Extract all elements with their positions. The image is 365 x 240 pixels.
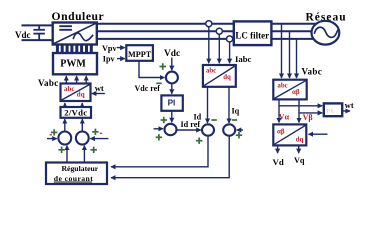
svg-text:Iq: Iq — [232, 106, 240, 115]
summer S2 Idref — [165, 124, 177, 135]
wire Vd output — [277, 145, 279, 153]
inverter U1 AC sine symbol — [73, 33, 93, 41]
wire current tap drop C — [229, 42, 231, 63]
current sensor CT1 — [206, 21, 212, 27]
svg-text:Vβ: Vβ — [303, 113, 313, 122]
sign plus regA — [58, 147, 64, 153]
svg-text:Vdc ref: Vdc ref — [135, 84, 161, 93]
sign plus SA left — [51, 129, 57, 135]
transform alphabeta-dq box — [273, 124, 306, 145]
wire phase A — [97, 23, 316, 25]
gain 2Vdc box — [61, 107, 92, 118]
svg-text:Vd: Vd — [273, 157, 284, 167]
wire mod to PWM 3 — [85, 76, 87, 84]
sign red dash SA — [50, 134, 52, 136]
current sensor CT3 — [227, 36, 233, 42]
wire Iq drop — [228, 87, 230, 123]
svg-text:Vabc: Vabc — [38, 78, 59, 88]
svg-text:Régulateur: Régulateur — [62, 164, 99, 173]
svg-text:Vα: Vα — [279, 113, 290, 122]
sign plus regB — [91, 147, 97, 153]
wire SA up to 2Vdc — [64, 119, 66, 131]
svg-text:P L: P L — [327, 109, 335, 115]
wire Vbeta to PLL — [299, 112, 322, 114]
regulator box — [46, 163, 107, 185]
wire Vabc tap 1 — [281, 24, 283, 78]
capacitor C1 — [33, 25, 45, 40]
transform abc-alphabeta box — [273, 80, 306, 100]
transform Iabc abc-dq box — [203, 65, 236, 87]
wire PWM gate comb — [57, 45, 91, 53]
summer SA — [58, 132, 71, 145]
svg-text:dq: dq — [223, 74, 231, 81]
svg-text:MPPT: MPPT — [128, 50, 152, 59]
wire regulator up B — [83, 146, 85, 163]
wire Valpha to PLL — [279, 105, 322, 107]
summer SB — [76, 132, 89, 145]
wire current tap drop A — [208, 27, 210, 63]
wire Vabc tap 3 — [296, 39, 298, 78]
LC filter box — [234, 21, 272, 45]
wire wt into mod box — [92, 93, 105, 95]
svg-text:PWM: PWM — [60, 58, 86, 69]
sign plus S3 — [196, 138, 202, 144]
wire Vbeta vertical — [298, 99, 300, 122]
wire phase B — [97, 30, 313, 32]
svg-text:Onduleur: Onduleur — [52, 10, 105, 23]
svg-text:abc: abc — [64, 85, 75, 93]
wire phase C — [97, 38, 316, 40]
summer S1 Vdc — [166, 72, 178, 84]
wire PI to S2 — [171, 111, 173, 123]
wire SA left stub — [47, 138, 57, 140]
svg-text:de courant: de courant — [54, 174, 93, 183]
svg-text:Iabc: Iabc — [235, 54, 252, 64]
wire Vpv arrow — [117, 47, 125, 49]
svg-text:dq: dq — [77, 91, 85, 99]
inverter U1 diagonal — [54, 23, 96, 43]
MPPT box — [126, 45, 153, 61]
PWM box — [53, 53, 97, 74]
wire S4 to regulator — [111, 136, 229, 178]
svg-text:Vq: Vq — [294, 156, 305, 165]
PLL box — [324, 103, 342, 116]
svg-text:2/Vdc: 2/Vdc — [64, 107, 87, 117]
wire mod to PWM 2 — [76, 76, 78, 84]
wire 2Vdc up left — [64, 103, 66, 107]
wire DC bus negative — [22, 39, 54, 41]
wire Vdc drop — [171, 58, 173, 71]
wire MPPT out to S1 — [139, 61, 164, 78]
wire S3 to regulator — [111, 136, 208, 167]
wire Ipv arrow — [117, 58, 125, 60]
svg-text:dq: dq — [296, 137, 304, 144]
svg-text:PI: PI — [168, 98, 176, 107]
wire PLL output wt — [342, 110, 350, 112]
wire DC bus positive — [22, 24, 54, 26]
wire SB right stub — [90, 138, 108, 140]
svg-text:Vpv: Vpv — [102, 44, 117, 53]
wire mod to PWM 1 — [65, 76, 67, 84]
wire Valpha vertical — [278, 99, 280, 122]
svg-text:αβ: αβ — [277, 129, 285, 136]
svg-text:αβ: αβ — [292, 89, 300, 96]
wire Id drop — [207, 87, 209, 123]
sign plus S4 — [236, 132, 242, 138]
inverter U1 DC symbol — [59, 26, 72, 30]
PI box — [161, 95, 182, 110]
svg-text:Ipv: Ipv — [103, 54, 116, 63]
wire 2Vdc up right — [81, 103, 83, 107]
current sensor CT2 — [216, 28, 222, 34]
wire S2 left stub — [154, 128, 163, 130]
sign minus Vdcref — [156, 82, 161, 84]
summer S3 Id — [202, 124, 214, 135]
sign minus Id — [211, 119, 216, 121]
sign plus SB right — [92, 129, 98, 135]
transform mod dq-abc box — [61, 84, 91, 102]
wire Vabc tap 2 — [289, 31, 291, 78]
wire Vq output — [298, 145, 300, 153]
sign minus Iq — [232, 119, 237, 121]
svg-text:Vabc: Vabc — [302, 67, 323, 77]
svg-text:Vdc: Vdc — [164, 49, 180, 59]
wire S1 to PI — [171, 83, 173, 93]
wire regulator up A — [66, 146, 68, 163]
AC grid source G1 — [312, 21, 340, 45]
svg-text:Vdc: Vdc — [15, 30, 31, 40]
summer S4 Iq — [223, 124, 235, 135]
svg-text:wt: wt — [345, 101, 354, 110]
sign plus S2 left — [156, 134, 162, 140]
sign plus Vdc — [160, 63, 167, 70]
sign plus PI out — [161, 117, 167, 123]
wire SB up to 2Vdc — [81, 119, 83, 131]
svg-text:Id ref: Id ref — [181, 120, 201, 129]
wire Id ref S2 to S3 — [177, 129, 201, 131]
inverter U1 box — [53, 23, 97, 45]
wire current tap drop B — [218, 34, 220, 63]
svg-text:abc: abc — [277, 83, 287, 90]
sign red dash SB — [100, 132, 102, 134]
svg-text:abc: abc — [206, 68, 216, 75]
wire S4 right stub — [237, 129, 243, 131]
wire wt into alphabeta-dq — [309, 133, 328, 135]
svg-text:wt: wt — [95, 83, 104, 93]
svg-text:LC filter: LC filter — [235, 30, 269, 40]
AC grid sine — [314, 27, 338, 37]
